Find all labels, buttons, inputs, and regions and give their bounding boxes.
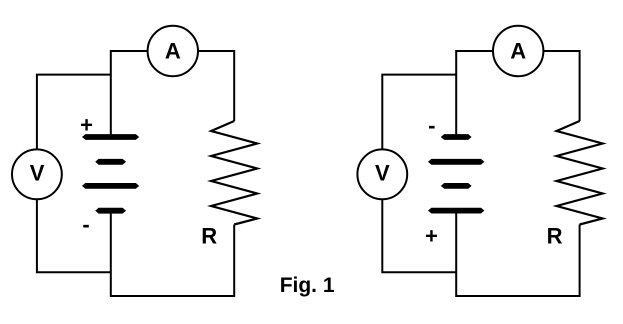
voltmeter V (left circuit)	[12, 149, 62, 199]
svg-text:+: +	[80, 112, 93, 137]
wire	[382, 75, 456, 150]
svg-text:-: -	[428, 113, 435, 138]
svg-text:R: R	[547, 224, 563, 249]
svg-text:Fig. 1: Fig. 1	[280, 274, 335, 297]
battery cell plate (long, right circuit)	[428, 159, 484, 165]
svg-text:V: V	[30, 161, 45, 186]
ammeter A (left circuit)	[148, 26, 198, 76]
wire	[382, 199, 456, 272]
battery cell plate (short, right circuit)	[441, 183, 472, 189]
svg-text:V: V	[375, 161, 390, 186]
svg-text:A: A	[510, 39, 526, 64]
wire	[111, 51, 148, 136]
resistor R (left circuit)	[211, 121, 257, 225]
svg-text:-: -	[82, 212, 89, 237]
battery cell plate (long, right circuit)	[428, 208, 484, 214]
wire	[111, 211, 234, 296]
wire	[37, 199, 111, 272]
battery cell plate (long, left circuit)	[82, 183, 139, 189]
svg-text:A: A	[165, 39, 181, 64]
resistor R (right circuit)	[557, 121, 603, 225]
ammeter A (right circuit)	[493, 26, 543, 76]
svg-text:R: R	[201, 224, 217, 249]
battery cell plate (long, left circuit)	[82, 134, 139, 140]
battery cell plate (short, right circuit)	[441, 134, 472, 140]
wire	[456, 211, 579, 296]
wire	[543, 51, 579, 121]
voltmeter V (right circuit)	[357, 149, 407, 199]
wire	[456, 51, 493, 136]
battery cell plate (short, left circuit)	[95, 159, 126, 165]
wire	[37, 75, 111, 150]
wire	[198, 51, 234, 121]
svg-text:+: +	[425, 224, 438, 249]
battery cell plate (short, left circuit)	[95, 208, 126, 214]
